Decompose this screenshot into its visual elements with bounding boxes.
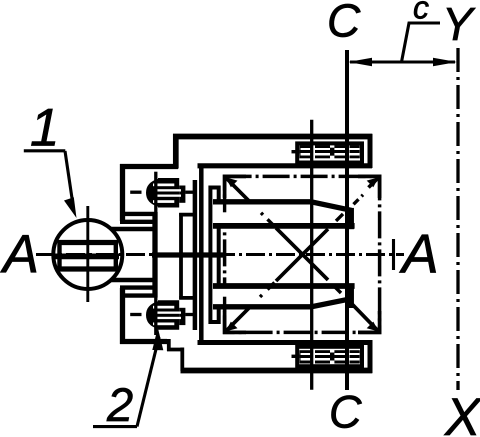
hub collar bottom line 2 <box>120 285 158 289</box>
bracket bottom edge <box>120 339 167 344</box>
body bottom edge <box>181 368 373 374</box>
chain bits diag2 above cap: dash <box>354 199 359 204</box>
dimension arrow right <box>433 58 457 67</box>
fitting 2 slot top outer <box>153 306 174 309</box>
fitting 1 horizontal centerline right <box>185 191 193 194</box>
diagonal BL-TR solid upper <box>369 176 380 187</box>
body inner top edge <box>198 163 373 168</box>
ball vertical centerline <box>86 206 89 302</box>
hub collar top line 3 <box>111 227 158 231</box>
fitting 1 slot top inner <box>157 189 182 191</box>
lower winding band top edge <box>213 283 355 289</box>
ball slot bar 3 <box>58 266 118 271</box>
body inner bottom edge <box>198 340 373 345</box>
top block white slot 2 <box>300 153 359 155</box>
bearing cap top connector <box>179 213 197 217</box>
chain bits diag1 in lower band: dot <box>346 298 348 300</box>
svg-text:1: 1 <box>30 98 59 157</box>
bottom block left stub <box>292 355 300 358</box>
bearing cap bottom connector <box>179 296 197 300</box>
diagonal TL-BR solid middle <box>276 228 328 280</box>
bracket left vertical lower <box>120 288 125 344</box>
flange plate vertical 2 (inner frame left) <box>199 166 204 342</box>
stator corner solid BR <box>358 311 380 332</box>
svg-text:A: A <box>0 225 39 285</box>
bottom block bridge <box>330 353 334 361</box>
bottom block contact square 4 <box>350 350 360 363</box>
callout 1 leader <box>65 151 73 205</box>
fitting 2 horizontal centerline right <box>185 313 193 316</box>
section line C redraw over body <box>345 50 349 390</box>
fitting 1 body <box>146 178 179 208</box>
svg-text:2: 2 <box>106 378 133 431</box>
body top-left step vertical <box>173 134 179 169</box>
flange plate vertical 1 <box>193 180 198 330</box>
stator corner solid BL <box>225 311 246 332</box>
chain bits diag2 in lower band: dot <box>260 295 262 297</box>
bearing cap left edge <box>179 213 183 300</box>
bottom block white slot 1 <box>300 353 359 355</box>
body outer top edge <box>173 134 372 140</box>
chain bits: stator left edge through upper band <box>223 198 226 213</box>
diagonal arrowhead BR <box>367 322 379 332</box>
flange narrow plate rectangle <box>210 188 218 323</box>
top block white slot 1 <box>300 148 359 150</box>
diagonal arrowhead TL <box>226 177 238 187</box>
diagonal BL-TR solid middle <box>276 229 328 281</box>
bottom terminal block rect <box>297 347 362 366</box>
bottom block slot bridge redraw <box>330 353 334 361</box>
callout 1 underline <box>24 149 66 152</box>
ball slot bar 2 <box>55 254 119 260</box>
dimension line c <box>350 60 455 63</box>
ball slot bar 1 <box>58 240 118 245</box>
fitting 2 vertical centerline <box>154 294 157 335</box>
chain bits diag2 above cap: dot <box>362 195 364 197</box>
hub collar right cap <box>152 212 157 298</box>
upper winding band top edge <box>213 202 351 211</box>
top block contact square 2 <box>315 145 330 158</box>
top block contact square 1 <box>299 145 310 158</box>
top block bridge <box>330 148 334 156</box>
top terminal block rect <box>297 143 362 162</box>
axis line X-Y (chain) <box>456 48 459 390</box>
shaft solid centerline <box>152 252 226 257</box>
shaft end tick <box>392 239 395 270</box>
bottom block contact square 2 <box>315 350 330 363</box>
diagonal arrowhead TR <box>367 177 379 187</box>
diagonal TL-BR solid upper <box>225 176 254 206</box>
callout 2 arrowhead <box>152 328 163 351</box>
top block slot bridge redraw <box>330 148 334 156</box>
hub collar bottom line 1 <box>111 278 158 282</box>
chain bits diag2 in upper band: dot <box>347 208 349 210</box>
chain bits diag1 in upper band: dash <box>268 219 275 226</box>
leader of dimension label c <box>402 23 441 62</box>
stator chain rectangle <box>225 176 380 332</box>
ball knob circle <box>53 220 122 289</box>
ball slot left cap <box>57 240 61 272</box>
svg-text:A: A <box>399 222 439 284</box>
upper winding band bottom edge <box>213 223 355 229</box>
svg-text:C: C <box>329 386 362 437</box>
svg-text:Y: Y <box>442 0 476 50</box>
fitting 1 nose <box>179 186 185 203</box>
hub collar top line 1 <box>120 212 158 216</box>
fitting 2 slot bottom outer <box>153 323 174 326</box>
bolt vertical line left <box>310 120 313 390</box>
chain bits: stator left edge through lower band <box>223 297 226 312</box>
callout 2 underline <box>93 425 137 428</box>
callout 2 leader <box>137 337 159 427</box>
fitting 1 slot top outer <box>153 184 174 187</box>
top block left stub <box>292 150 300 153</box>
bottom step vertical 2 <box>180 348 184 372</box>
diagonal arrowhead BL <box>226 322 238 332</box>
svg-text:X: X <box>443 388 480 437</box>
top block contact square 3 <box>334 145 345 158</box>
bracket left vertical upper <box>120 164 125 221</box>
diagonal TL-BR solid lower <box>351 303 379 332</box>
bottom block contact square 1 <box>299 350 310 363</box>
centerline A-A (chain) <box>36 253 404 256</box>
diagonal BL-TR solid lower <box>225 303 254 332</box>
bottom block white slot 2 <box>300 358 359 360</box>
section line C <box>345 50 349 390</box>
dimension arrow left <box>348 58 372 67</box>
callout 1 arrowhead <box>64 197 77 218</box>
fitting 1 slot bottom outer <box>153 200 174 203</box>
fitting 2 slot top inner <box>157 312 182 314</box>
chain bits diag1 in lower band: dash <box>334 286 341 293</box>
fitting 2 horizontal centerline left <box>130 313 141 316</box>
fitting 1 slot bottom inner <box>157 195 182 197</box>
lower winding band right cap <box>349 284 354 309</box>
top block contact square 4 <box>350 145 360 158</box>
fitting 2 body <box>146 300 179 330</box>
bottom step horizontal <box>167 348 184 352</box>
chain bits diag2 in lower band: dash <box>268 283 275 290</box>
chain bits diag1 in upper band: dot <box>261 213 263 215</box>
svg-text:C: C <box>327 0 361 47</box>
fitting 1 horizontal centerline left <box>130 191 141 194</box>
bottom step vertical 1 <box>167 339 171 351</box>
body outer right upper vertical <box>368 134 373 168</box>
bracket top edge <box>120 164 178 169</box>
ball slot right cap <box>114 240 118 272</box>
fitting 2 slot bottom inner <box>157 317 182 319</box>
upper winding band right cap <box>349 208 354 229</box>
stator corner solid TL <box>225 176 246 198</box>
stator corner solid TR <box>358 176 380 198</box>
lower winding band bottom edge <box>213 299 351 307</box>
body outer right lower vertical <box>368 340 373 373</box>
bottom block contact square 3 <box>334 350 345 363</box>
upper winding band fill <box>213 202 351 226</box>
lower winding band fill <box>213 286 351 307</box>
svg-text:c: c <box>413 0 429 25</box>
fitting 2 nose <box>179 308 185 325</box>
hub collar bottom line 3 <box>120 293 158 297</box>
hub collar top line 2 <box>120 220 158 224</box>
chain bits diag2 in upper band: dash <box>336 214 343 221</box>
fitting 1 vertical centerline <box>154 172 157 213</box>
